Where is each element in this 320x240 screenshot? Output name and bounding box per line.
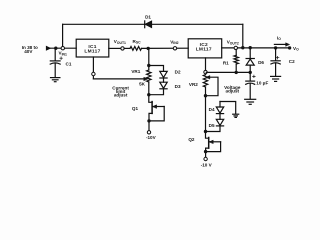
svg-text:D2: D2 [175, 69, 181, 74]
node junction dot C2 branch [274, 46, 277, 49]
wire D2 to D3 [163, 78, 165, 82]
svg-text:10 μF: 10 μF [256, 80, 268, 85]
wire ADJ2 rail [206, 71, 250, 73]
wire D4 to D5 [219, 114, 221, 120]
node junction dot Rsc/VR1 [147, 47, 150, 50]
ground (C1) [51, 78, 60, 82]
potentiometer VR1 [147, 70, 151, 82]
svg-text:Q2: Q2 [188, 137, 195, 142]
node VOUT2 terminal circle [234, 46, 237, 49]
svg-text:VOUT2: VOUT2 [227, 40, 239, 46]
svg-text:D3: D3 [175, 84, 181, 89]
node input arrow [46, 46, 50, 50]
transistor Q1 (JFET) [149, 95, 164, 131]
capacitor C2 [271, 48, 280, 76]
node junction dot Q1 source [147, 119, 150, 122]
ground (D4 top mini) [233, 114, 239, 117]
wire Rsc to IC2 [142, 47, 189, 49]
node junction dot R1 bottom [235, 71, 238, 74]
node IC1 ADJ circle [92, 72, 95, 75]
node VR2 wiper arrowhead [206, 76, 210, 79]
diode D1 [145, 21, 152, 28]
wire D2 branch top jog [149, 66, 164, 72]
wire VR2 wiper loop [206, 77, 219, 96]
wire VR1 branch from Rsc node down [148, 48, 150, 70]
svg-text:VO: VO [293, 46, 299, 52]
wire right drop from top rail to output rail [242, 24, 244, 47]
svg-text:40V: 40V [24, 49, 33, 54]
svg-text:D5: D5 [209, 123, 215, 128]
node junction dot D1 branch [241, 46, 244, 49]
wire IC1 ADJ pin down [92, 57, 94, 79]
wire D3 bottom jog to Q1 drain node [149, 89, 164, 95]
wire input rail [50, 47, 76, 49]
diode D3 [160, 82, 167, 89]
node junction dot VR2 bottom / wiper [204, 94, 207, 97]
svg-text:VR2: VR2 [189, 82, 198, 87]
op-amp IC2 LM117 box [188, 39, 222, 58]
op-amp IC1 LM117 box [76, 39, 109, 57]
node Q1 -10V terminal circle [147, 131, 150, 134]
node junction dot D5 bottom / Q2 drain [204, 130, 207, 133]
resistor R1 [234, 49, 238, 72]
ground (10uF) [245, 99, 256, 104]
node junction dot Q2 source [204, 150, 207, 153]
node VR1 wiper arrowhead [144, 77, 148, 80]
svg-text:C1: C1 [66, 61, 72, 66]
wire D4 top to mini ground [220, 102, 236, 114]
wire D5 bottom jog to rail [206, 126, 221, 132]
node VIN1 terminal circle [61, 47, 64, 50]
wire IC2 ADJ pin down [205, 58, 207, 75]
node VO terminal dot [288, 46, 291, 49]
wire top rail right of D1 [152, 23, 243, 25]
svg-text:VR1: VR1 [131, 69, 140, 74]
capacitor 10uF ADJ bypass [246, 72, 256, 99]
node junction dot C1 branch [54, 47, 57, 50]
svg-text:VIN1: VIN1 [59, 51, 67, 57]
svg-text:5K: 5K [139, 82, 146, 87]
svg-text:adjust: adjust [226, 89, 240, 94]
diode D4 [216, 107, 223, 114]
transistor Q2 (JFET) [206, 132, 221, 158]
wire left drop from top rail to input node [62, 24, 64, 46]
node junction dot D6 branch [249, 46, 252, 49]
diode D5 [216, 119, 223, 126]
wire D4 chain top [219, 102, 221, 108]
svg-text:VIN2: VIN2 [170, 39, 178, 45]
node VOUT1 terminal circle [121, 47, 124, 50]
potentiometer VR2 [203, 75, 207, 87]
svg-text:C2: C2 [289, 59, 295, 64]
node IC2 ADJ circle [204, 70, 207, 73]
wire VR1 bottom to Q1 node [148, 82, 150, 95]
svg-text:LM117: LM117 [84, 49, 100, 55]
resistor Rsc [130, 47, 142, 51]
svg-text:D4: D4 [209, 107, 215, 112]
node VIN2 terminal circle [173, 47, 176, 50]
node junction dot VR1 bottom / D3 / Q1 drain [147, 93, 150, 96]
svg-text:VOUT1: VOUT1 [114, 39, 126, 45]
svg-text:LM117: LM117 [196, 47, 212, 53]
diode D2 [160, 71, 167, 78]
wire IC1 output [109, 47, 121, 49]
node junction dot VR1 top / D2 branch [147, 64, 150, 67]
wire top rail left of D1 [63, 23, 145, 25]
svg-text:Q1: Q1 [132, 106, 139, 111]
wire VR2 bottom rail [205, 87, 207, 132]
svg-text:-10V: -10V [146, 135, 157, 140]
svg-text:-10 V: -10 V [201, 163, 213, 168]
svg-text:D6: D6 [258, 60, 264, 65]
node junction dot D6 bottom / 10uF [249, 71, 252, 74]
ground (C2) [271, 76, 281, 81]
wire ADJ1 to VR1 wiper [93, 78, 144, 80]
node Q2 -10V terminal circle [204, 157, 207, 160]
svg-text:R1: R1 [223, 61, 229, 66]
svg-text:adjust: adjust [114, 93, 128, 98]
svg-text:IO: IO [277, 36, 281, 42]
wire IC2 output rail [222, 47, 290, 49]
capacitor C1 [50, 48, 62, 77]
node IO arrow [274, 43, 289, 46]
svg-text:D1: D1 [145, 15, 151, 20]
svg-text:RSC: RSC [133, 39, 142, 45]
wire VOUT1 to Rsc [124, 47, 130, 49]
diode D6 [246, 48, 254, 73]
